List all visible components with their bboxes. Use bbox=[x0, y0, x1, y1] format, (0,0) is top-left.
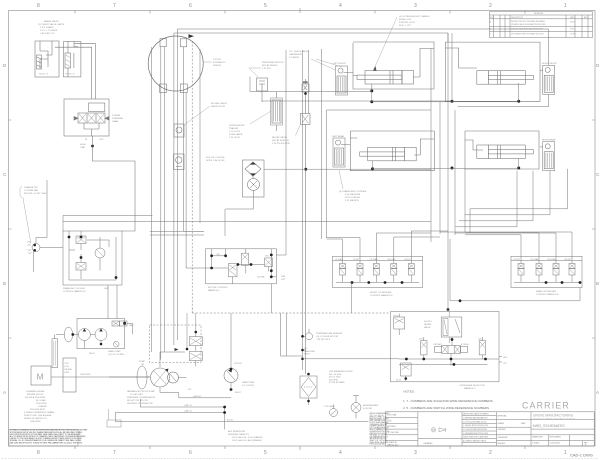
bus under front cylinders bbox=[372, 101, 519, 103]
stabilizer cylinder callout bbox=[339, 190, 367, 202]
compensator valve 2 bbox=[189, 352, 202, 367]
rear group step wires bbox=[455, 209, 567, 233]
svg-text:OUT: OUT bbox=[99, 139, 104, 141]
svg-text:A: A bbox=[3, 390, 6, 395]
svg-text:CHG GEAR PUMP FLOW RATE ECN 99: CHG GEAR PUMP FLOW RATE ECN 9912 bbox=[511, 33, 544, 36]
coupling label bbox=[65, 363, 73, 374]
svg-text:6 PORT: 6 PORT bbox=[213, 59, 222, 61]
line labels lower bbox=[184, 389, 234, 422]
junction motive a bbox=[210, 254, 213, 257]
svg-text:100.2 GALLON - ADD (RANGE): 100.2 GALLON - ADD (RANGE) bbox=[232, 439, 262, 442]
high line test port dot bbox=[91, 145, 94, 148]
svg-text:TNK BREATHER FILTER: TNK BREATHER FILTER bbox=[329, 370, 353, 373]
front outrigger sol 3 bbox=[373, 261, 379, 282]
wire cyl RR down bbox=[518, 159, 520, 169]
svg-text:1: 1 bbox=[564, 450, 567, 456]
wire cyl LF down bbox=[371, 84, 373, 102]
relief valve symbol bbox=[300, 107, 310, 374]
svg-text:132.5 GALLON - FULL (RANGE): 132.5 GALLON - FULL (RANGE) bbox=[232, 436, 263, 439]
svg-text:MOTOR: 0.5 HP 7 REV: MOTOR: 0.5 HP 7 REV bbox=[24, 193, 47, 195]
selector relief component bbox=[441, 312, 462, 344]
pressure switch label bbox=[262, 62, 284, 70]
svg-text:CUMMINS DIESEL: CUMMINS DIESEL bbox=[26, 391, 46, 393]
svg-text:TANK/LINE: TANK/LINE bbox=[304, 350, 315, 353]
svg-text:4: 4 bbox=[339, 3, 342, 9]
junction cooler manifold c bbox=[80, 256, 83, 259]
svg-text:EV-06: EV-06 bbox=[396, 380, 401, 382]
svg-text:CONTROL MANIFOLD: CONTROL MANIFOLD bbox=[63, 290, 86, 293]
dashed trunk horizontal bbox=[192, 308, 390, 313]
svg-text:INLET: INLET bbox=[89, 353, 96, 355]
svg-text:-1 E REDREW SELECTOR VLV 8/: -1 E REDREW SELECTOR VLV 8/03 bbox=[463, 433, 488, 435]
svg-text:OIL COOLER MOTOR: OIL COOLER MOTOR bbox=[316, 336, 338, 338]
svg-text:3 25 PSI 4/3 GPM: 3 25 PSI 4/3 GPM bbox=[272, 143, 290, 145]
swivel label leader bbox=[203, 61, 212, 63]
svg-text:IN-LINE CHECK: IN-LINE CHECK bbox=[211, 103, 228, 105]
svg-text:62-00413-667: 62-00413-667 bbox=[550, 443, 561, 445]
junction cooler manifold d bbox=[115, 276, 118, 279]
svg-text:7: 7 bbox=[113, 450, 116, 456]
wire cart LR stub bbox=[341, 143, 350, 145]
small pump circle 2 bbox=[90, 329, 107, 344]
svg-text:GN1: GN1 bbox=[281, 276, 286, 278]
junction selector top a bbox=[447, 308, 450, 311]
wire trunk 1 bbox=[151, 47, 153, 352]
svg-text:HOLD #1: HOLD #1 bbox=[39, 74, 49, 76]
svg-text:1200 RPM: 1200 RPM bbox=[80, 374, 91, 376]
zone number labels bottom bbox=[37, 450, 567, 456]
wire trunk 7 bbox=[185, 93, 187, 269]
rear outrigger sol 1 bbox=[518, 261, 524, 282]
svg-text:PART 62-413: PART 62-413 bbox=[388, 444, 398, 447]
junction motive e bbox=[250, 263, 253, 266]
border tick marks left bbox=[9, 120, 12, 338]
svg-text:RELIEF: RELIEF bbox=[424, 324, 432, 326]
wire trunk 3 bbox=[163, 47, 165, 352]
wire gear pump bottom bbox=[230, 383, 232, 390]
swivel port block top 1 bbox=[160, 39, 166, 47]
svg-text:8: 8 bbox=[37, 3, 40, 9]
svg-text:450 HP A 1200 RPM: 450 HP A 1200 RPM bbox=[25, 396, 45, 399]
svg-text:REF NUMBER: REF NUMBER bbox=[550, 437, 562, 439]
hatched filter cartridge bbox=[271, 92, 283, 131]
wire trunk 8 dashed bbox=[191, 41, 193, 313]
svg-text:CR4: CR4 bbox=[419, 339, 423, 341]
front outrigger sol 1 bbox=[340, 261, 346, 282]
svg-text:(1) 2.07 CU/ REV: (1) 2.07 CU/ REV bbox=[108, 354, 125, 356]
svg-text:COOLER FAN: COOLER FAN bbox=[24, 189, 39, 192]
svg-text:REVISIONS: REVISIONS bbox=[534, 13, 544, 15]
leader stabilizer to LR cart bbox=[339, 170, 343, 189]
change ps cooler fan note bbox=[24, 186, 47, 195]
bus under front 3 bbox=[326, 109, 328, 111]
outrigger ext cables callout bbox=[399, 15, 430, 27]
svg-text:SWIVEL: SWIVEL bbox=[213, 65, 222, 67]
junction rear outrigger 3 bbox=[579, 281, 582, 284]
temperature sensor bbox=[303, 329, 313, 340]
wire trunk right 1 bbox=[451, 33, 453, 101]
front outrigger sol 4 bbox=[391, 261, 397, 282]
right front cylinder group box bbox=[445, 42, 540, 101]
svg-text:7: 7 bbox=[113, 3, 116, 9]
junction selector bus e bbox=[450, 358, 453, 361]
wire trunk cyl mid 1 bbox=[430, 49, 432, 243]
left front cylinder group box bbox=[353, 42, 434, 89]
wire cyl RF down bbox=[518, 83, 520, 101]
svg-text:AUX RESERVOIR: AUX RESERVOIR bbox=[228, 430, 246, 433]
title col1 text bbox=[387, 414, 399, 447]
svg-text:40 SCFM: 40 SCFM bbox=[363, 408, 372, 410]
junction temp sensor bbox=[301, 335, 304, 338]
wire trunk cyl left 1 bbox=[321, 49, 323, 239]
svg-text:GN1: GN1 bbox=[265, 256, 269, 258]
svg-text:HOLD #2: HOLD #2 bbox=[66, 74, 76, 76]
svg-text:6/4/02: 6/4/02 bbox=[570, 22, 575, 24]
svg-text:RPM: RPM bbox=[65, 372, 70, 374]
compensator stems bbox=[187, 313, 196, 349]
svg-text:OPT: OPT bbox=[281, 279, 286, 281]
wire gear pump top bbox=[230, 313, 232, 369]
junction rear outrigger 1 bbox=[545, 281, 548, 284]
rear outrigger valve labels bbox=[514, 258, 573, 261]
svg-text:CHECKED: CHECKED bbox=[498, 429, 507, 431]
selector pilot valve left bbox=[421, 337, 427, 359]
junction rear outrigger 2 bbox=[561, 281, 564, 284]
svg-text:ROD: 1.767": ROD: 1.767" bbox=[399, 25, 412, 27]
junction gear pump bottom bbox=[230, 388, 233, 391]
front outrigger sol 2 bbox=[357, 261, 363, 282]
svg-text:GEAR PUMP: GEAR PUMP bbox=[108, 350, 121, 353]
svg-text:NOTES:: NOTES: bbox=[404, 390, 415, 394]
pump case dashed box bbox=[150, 325, 202, 363]
wire manifold top feed bbox=[63, 216, 153, 232]
svg-text:CR6: CR6 bbox=[478, 339, 482, 341]
svg-text:4 WHEN OPERATING CRANE: 4 WHEN OPERATING CRANE bbox=[24, 411, 55, 414]
oil tank line port label bbox=[304, 348, 315, 356]
high line label bbox=[80, 144, 86, 149]
pump group enclosure bbox=[77, 319, 125, 349]
svg-text:1. 7 - NUMBERS ARE SOLENOID W: 1. 7 - NUMBERS ARE SOLENOID WIRE REFEREN… bbox=[403, 399, 494, 403]
pump on ellipse bbox=[137, 366, 147, 389]
orifice component bbox=[302, 79, 309, 107]
svg-text:CONTROL MANIFOLD: CONTROL MANIFOLD bbox=[536, 293, 559, 296]
svg-text:LR EXT: LR EXT bbox=[514, 259, 521, 261]
svg-text:DESCRIPTION: DESCRIPTION bbox=[511, 17, 523, 19]
svg-text:16.5A CABLE: 16.5A CABLE bbox=[229, 133, 243, 136]
pump on label bbox=[139, 361, 146, 366]
svg-text:(1.5 HP) REV: (1.5 HP) REV bbox=[130, 394, 143, 396]
wire trunk 4 bbox=[173, 36, 175, 345]
junction front outrigger 2 bbox=[367, 281, 370, 284]
svg-text:1.0-2.4 BARS: 1.0-2.4 BARS bbox=[40, 26, 54, 29]
wire step to cooler manifold bbox=[224, 209, 226, 236]
left mid region wires bbox=[36, 169, 431, 243]
svg-text:-1 D CHG SOL REF NOS ECN 4: -1 D CHG SOL REF NOS ECN 4/03 bbox=[463, 429, 487, 431]
junction motive g bbox=[270, 269, 273, 272]
wire RF right edge bbox=[548, 29, 550, 65]
svg-text:A-2-HO: A-2-HO bbox=[227, 419, 234, 422]
belt drive box bbox=[52, 335, 58, 368]
selector solenoid valve top left bbox=[394, 314, 405, 335]
svg-text:3: 3 bbox=[414, 450, 417, 456]
cooler manifold internal wires bbox=[69, 231, 116, 280]
tolerance table text bbox=[463, 413, 488, 443]
wire cooler down bbox=[226, 197, 254, 210]
thermo fan circle bbox=[27, 242, 63, 254]
relief valve label bbox=[272, 136, 290, 145]
drive shaft line bbox=[51, 376, 150, 378]
temperature sensor label bbox=[316, 332, 343, 341]
junction selector bus d bbox=[484, 358, 487, 361]
6 port hydraulic swivel circle bbox=[148, 36, 203, 91]
swivel port block top 2 bbox=[180, 39, 186, 47]
zone number labels top bbox=[37, 3, 567, 9]
wire trunk 2 bbox=[160, 47, 162, 360]
cylinder right front bbox=[477, 71, 534, 85]
front bus wires bbox=[303, 29, 568, 370]
wire front manifold drain bbox=[350, 283, 352, 314]
svg-text:SET AT 3000 PSI: SET AT 3000 PSI bbox=[272, 139, 289, 142]
dense spec note block bbox=[10, 429, 87, 445]
svg-text:BY 0.5 1000: BY 0.5 1000 bbox=[329, 377, 341, 379]
bus wire y101 bbox=[262, 100, 452, 102]
svg-text:3.50 DIA BORE: 3.50 DIA BORE bbox=[345, 193, 361, 196]
approvals col text bbox=[498, 415, 527, 446]
junction selector feed bbox=[451, 338, 454, 341]
front outrigger label bbox=[370, 292, 393, 297]
cooler manifold label bbox=[63, 287, 109, 293]
svg-text:2.25 DIA ROD: 2.25 DIA ROD bbox=[345, 199, 359, 202]
svg-text:6: 6 bbox=[189, 3, 192, 9]
svg-text:TEMPERATURE SENSOR: TEMPERATURE SENSOR bbox=[316, 332, 343, 335]
hyd oil cooler label bbox=[206, 157, 225, 162]
svg-text:1/7/03: 1/7/03 bbox=[570, 34, 575, 36]
trunk wires through swivel bbox=[152, 29, 549, 360]
junction left front a bbox=[370, 89, 373, 92]
svg-text:8: 8 bbox=[37, 450, 40, 456]
svg-text:CONTROL MANIFOLD: CONTROL MANIFOLD bbox=[370, 294, 393, 297]
po check cartridge LF bbox=[336, 66, 348, 95]
svg-text:UNRATED: UNRATED bbox=[424, 442, 434, 445]
svg-text:CAD-1 DWG: CAD-1 DWG bbox=[570, 453, 593, 458]
junction filter bottom bbox=[307, 400, 310, 403]
svg-text:MANIFOLD: MANIFOLD bbox=[464, 387, 476, 390]
pump arrows bbox=[165, 369, 169, 373]
motive drain down bbox=[270, 284, 272, 313]
svg-text:ENGINE: ENGINE bbox=[65, 369, 73, 371]
junction tank port a bbox=[301, 349, 304, 352]
wire steering to cooler manifold bbox=[93, 136, 136, 231]
rear outrigger sol 2 bbox=[536, 261, 542, 282]
leader po check to LF cart bbox=[311, 59, 342, 70]
junction front outrigger 1 bbox=[351, 281, 354, 284]
wire cart LF stub bbox=[344, 71, 354, 73]
wire trunk 6 bbox=[184, 47, 205, 232]
gear pump labels bbox=[234, 363, 255, 394]
svg-text:BRAKE VALVE: BRAKE VALVE bbox=[44, 20, 59, 23]
wire cooler right bbox=[264, 168, 431, 170]
outrigger selector manifold box bbox=[391, 312, 500, 382]
svg-text:TOP GAGE: TOP GAGE bbox=[324, 405, 335, 408]
svg-text:DR BY: RAH: DR BY: RAH bbox=[387, 414, 397, 417]
svg-text:SET AT 2750 STD PSI: SET AT 2750 STD PSI bbox=[127, 399, 148, 402]
lower routing bus 3 bbox=[115, 412, 224, 414]
svg-text:200 PSI: 200 PSI bbox=[424, 321, 432, 323]
svg-text:POWER: POWER bbox=[112, 115, 121, 117]
cooler manifold valve 1 bbox=[76, 236, 86, 244]
svg-text:EV-09: EV-09 bbox=[394, 316, 399, 318]
left rear cylinder group box bbox=[350, 131, 434, 171]
brake valve note text bbox=[38, 20, 65, 35]
svg-text:25 PSI BY-PASS: 25 PSI BY-PASS bbox=[329, 381, 345, 384]
filter leader bbox=[250, 111, 271, 124]
svg-text:RF EXT: RF EXT bbox=[405, 259, 413, 261]
svg-text:1850 RPM: 1850 RPM bbox=[30, 421, 41, 423]
gear pump arrow bbox=[228, 369, 232, 373]
svg-text:LF STAB: LF STAB bbox=[335, 258, 343, 261]
note box small bbox=[107, 420, 121, 427]
engine motor M bbox=[31, 366, 51, 385]
svg-text:LINE: LINE bbox=[80, 147, 85, 149]
relief 200psi label bbox=[424, 321, 432, 329]
brake valve manifold 2 bbox=[64, 42, 81, 78]
bus under rear cylinders bbox=[373, 168, 519, 170]
junction right rear a bbox=[451, 167, 454, 170]
leader change ps to fan bbox=[23, 197, 31, 243]
svg-text:LEFT REAR: LEFT REAR bbox=[332, 135, 344, 138]
leader callout to cylinder bbox=[374, 17, 397, 69]
svg-text:MFG APP: MFG APP bbox=[498, 442, 506, 445]
svg-text:LF EXT: LF EXT bbox=[353, 259, 360, 261]
junction right front b bbox=[517, 100, 520, 103]
svg-text:OUTLET: OUTLET bbox=[234, 363, 243, 365]
svg-text:PRESSURE SWITCH: PRESSURE SWITCH bbox=[262, 62, 284, 64]
arrowhead callout bbox=[373, 66, 377, 71]
steering directional valve bbox=[78, 113, 105, 123]
wire motive returns down bbox=[281, 313, 303, 356]
svg-text:D SCALE: D SCALE bbox=[532, 442, 540, 445]
svg-text:9/9/02: 9/9/02 bbox=[570, 29, 575, 31]
rear outrigger control manifold bbox=[511, 256, 582, 287]
wire swivel top 2 bbox=[177, 29, 548, 36]
svg-text:6: 6 bbox=[189, 450, 192, 456]
svg-text:FILE 62-00413-66 SHT: FILE 62-00413-66 SHT bbox=[370, 444, 386, 446]
svg-text:NO. 0.5 SGS: NO. 0.5 SGS bbox=[329, 374, 342, 376]
junction rear loop bbox=[459, 299, 462, 302]
selector valve labels bbox=[434, 343, 470, 346]
junction thermo fan a bbox=[33, 244, 36, 247]
inlet outlet labels pump bbox=[89, 350, 125, 356]
svg-text:2.0 CU/ REV: 2.0 CU/ REV bbox=[242, 385, 255, 387]
cylinder right rear bbox=[477, 145, 534, 159]
svg-text:IDLE 850 RPM: IDLE 850 RPM bbox=[30, 409, 45, 411]
svg-text:RR EXT: RR EXT bbox=[565, 259, 573, 261]
swivel label bbox=[213, 59, 226, 67]
gear pump circle bbox=[224, 369, 238, 383]
aux reservoir label bbox=[228, 430, 263, 442]
front outrigger valve labels bbox=[335, 258, 412, 261]
svg-text:MOTIVE CONTROL: MOTIVE CONTROL bbox=[208, 287, 228, 289]
wire cart RR stub bbox=[540, 146, 543, 148]
svg-text:ON: ON bbox=[141, 364, 145, 366]
svg-text:RR STAB: RR STAB bbox=[548, 258, 557, 261]
svg-text:300 GPM: 300 GPM bbox=[329, 379, 338, 381]
charge pump circle bbox=[168, 372, 179, 383]
svg-text:4WD_SCHEMATIC: 4WD_SCHEMATIC bbox=[533, 424, 566, 428]
wire selector top bbox=[447, 238, 449, 312]
selector directional valve bbox=[435, 337, 468, 366]
svg-text:1-ANT-10: 1-ANT-10 bbox=[184, 404, 192, 407]
svg-text:CK BY: CK BY bbox=[387, 421, 393, 423]
svg-text:SYM: SYM bbox=[490, 17, 494, 19]
svg-text:NO LOAD: NO LOAD bbox=[36, 399, 46, 402]
wire brake drain down bbox=[36, 180, 47, 244]
svg-text:VALVE: VALVE bbox=[424, 326, 431, 329]
zone letter labels right bbox=[596, 63, 600, 395]
zone letter labels left bbox=[3, 63, 7, 395]
svg-text:PRESSURE COMPENSATOR: PRESSURE COMPENSATOR bbox=[127, 396, 156, 399]
svg-text:1 AC-PRV CYL: 1 AC-PRV CYL bbox=[40, 32, 56, 35]
pump label text bbox=[127, 390, 156, 405]
svg-text:3: 3 bbox=[414, 3, 417, 9]
svg-text:HYD OIL COOLER: HYD OIL COOLER bbox=[206, 157, 225, 159]
junction thermo fan b bbox=[33, 249, 36, 252]
svg-text:DRAWN DWF: DRAWN DWF bbox=[532, 436, 543, 439]
brake valve manifold 1 bbox=[35, 41, 59, 77]
lower routing bus 4 bbox=[115, 413, 368, 422]
border tick marks right bbox=[592, 120, 595, 338]
junction fan drive bbox=[71, 333, 74, 336]
lower routing bus 2 bbox=[140, 399, 224, 407]
wires into front manifold bbox=[327, 231, 449, 261]
svg-text:(4) OUTRIGGER EXT CABLES: (4) OUTRIGGER EXT CABLES bbox=[399, 15, 430, 18]
svg-text:INLET: INLET bbox=[235, 392, 242, 394]
wire piston pump lines bbox=[109, 352, 187, 393]
junction selector bus b bbox=[422, 358, 425, 361]
svg-text:DESIGN APP: DESIGN APP bbox=[498, 436, 509, 439]
junction tank port b bbox=[301, 358, 304, 361]
svg-text:RETRACT: RETRACT bbox=[434, 343, 444, 346]
wire rear manifold bottom loop bbox=[450, 239, 580, 301]
svg-text:2-CV 1, 2-STRKE: 2-CV 1, 2-STRKE bbox=[40, 30, 58, 32]
svg-text:TRAILER: TRAILER bbox=[229, 127, 239, 130]
wire cyl LR down bbox=[372, 161, 374, 169]
svg-text:VALVE 65 PSI: VALVE 65 PSI bbox=[211, 105, 225, 108]
wire GN1 bbox=[499, 357, 502, 363]
relief leader bbox=[296, 126, 301, 136]
svg-text:P.O. CHECK VALVE: P.O. CHECK VALVE bbox=[289, 50, 309, 53]
approvals dense text bbox=[370, 413, 391, 446]
svg-text:5 25 PSI: 5 25 PSI bbox=[262, 68, 271, 70]
svg-text:GROVE MANUFACTURING: GROVE MANUFACTURING bbox=[533, 414, 574, 418]
spec note box bbox=[9, 430, 78, 447]
svg-text:BORE: 4.00": BORE: 4.00" bbox=[399, 19, 412, 21]
junction compensator bbox=[195, 331, 198, 334]
svg-text:HIGH: HIGH bbox=[80, 144, 86, 146]
svg-text:5: 5 bbox=[264, 3, 267, 9]
junction right rear b bbox=[517, 167, 520, 170]
junction cooler relief bbox=[123, 322, 126, 325]
frame a/c cooler control manifold bbox=[63, 231, 122, 285]
wire pressure switch stub bbox=[249, 77, 251, 92]
svg-text:PORT: PORT bbox=[304, 354, 310, 356]
top gage bbox=[330, 405, 338, 417]
svg-text:SPEED IS LIMITED TO: SPEED IS LIMITED TO bbox=[24, 418, 47, 420]
left rear step wires bbox=[303, 50, 309, 370]
svg-text:UPPER FRONT: UPPER FRONT bbox=[229, 125, 245, 127]
svg-text:DRAWN: DRAWN bbox=[498, 422, 505, 425]
GN1 OPT labels bbox=[503, 357, 508, 365]
